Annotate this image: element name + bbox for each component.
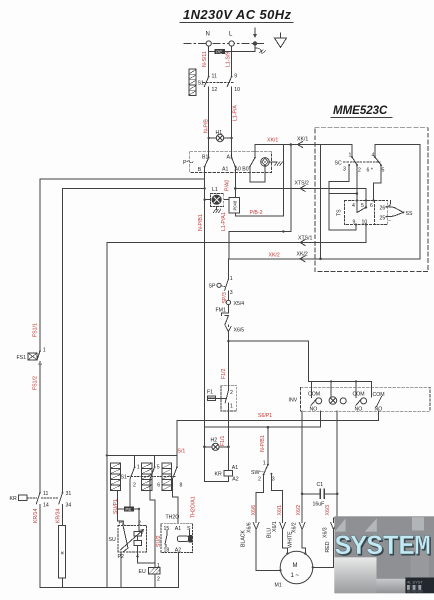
wire column to F1 bbox=[227, 341, 229, 386]
wire L1 right pin to connector bbox=[224, 199, 229, 201]
rail drops to INV bbox=[312, 380, 372, 397]
pressure unit SU dashed box bbox=[109, 521, 147, 561]
svg-text:2: 2 bbox=[230, 390, 233, 396]
wire TH2O A2 to bus bbox=[178, 553, 180, 588]
wire lower link y231 bbox=[229, 231, 291, 233]
wire SU 4 joins EU feed bbox=[138, 552, 156, 563]
wire black to motor bbox=[256, 533, 280, 570]
junction dot SU-2 feed bbox=[138, 508, 140, 510]
node L1 lamp bbox=[210, 187, 223, 206]
motor M1 bbox=[275, 551, 314, 588]
heater EU bbox=[139, 563, 161, 588]
INV contact group 4 bbox=[373, 392, 385, 412]
wire INV drop to S6/P1 bbox=[378, 411, 380, 420]
svg-text:15: 15 bbox=[164, 526, 170, 532]
wire INV drop to N line bbox=[319, 411, 321, 427]
terminal block 3 (hatched) bbox=[162, 463, 171, 491]
bottom bus wire bbox=[40, 587, 179, 589]
svg-text:KR/14: KR/14 bbox=[33, 508, 39, 523]
svg-text:BLU: BLU bbox=[267, 528, 273, 538]
svg-text:SC: SC bbox=[335, 161, 342, 167]
terminal block 1 (hatched) bbox=[110, 463, 120, 491]
svg-text:PE: PE bbox=[216, 50, 222, 55]
svg-text:5: 5 bbox=[361, 203, 364, 209]
wire blue to motor bbox=[283, 533, 288, 554]
svg-text:KR: KR bbox=[10, 496, 17, 502]
P label with flexible link bbox=[183, 160, 193, 166]
node L terminal circle bbox=[229, 41, 234, 46]
svg-text:34: 34 bbox=[66, 503, 72, 509]
wire N drop to switch bbox=[208, 46, 210, 76]
wire C1 right to red column bbox=[325, 493, 337, 495]
switch SC pole 1-2 bbox=[343, 152, 361, 173]
junction dot H1 left bbox=[208, 137, 210, 139]
programmer P dashed box bbox=[190, 152, 272, 173]
svg-text:X5/4: X5/4 bbox=[234, 301, 245, 307]
relay coil KR bbox=[204, 447, 238, 483]
S1 pole 7-8 bbox=[172, 455, 182, 523]
INV contact group 1 bbox=[308, 392, 322, 413]
wire far-left rail upper joins N (y179) bbox=[40, 178, 205, 180]
svg-text:N-S/11: N-S/11 bbox=[202, 51, 208, 67]
svg-text:11: 11 bbox=[212, 74, 217, 80]
svg-text:18: 18 bbox=[164, 548, 170, 554]
svg-text:XK/1: XK/1 bbox=[267, 138, 278, 144]
wire L drop to switch bbox=[231, 46, 233, 76]
terminal X5/4 circle bbox=[226, 300, 244, 307]
wire SC4 riser bbox=[374, 145, 376, 157]
SU internals bbox=[121, 525, 144, 552]
KR contact 31-34 bbox=[59, 491, 72, 526]
wire drop to XK/2 corner bbox=[228, 232, 230, 260]
svg-text:XK/2: XK/2 bbox=[297, 251, 308, 257]
wire below X5/4 bbox=[227, 305, 229, 313]
svg-text:P/A0: P/A0 bbox=[225, 180, 231, 191]
wire second rail column bbox=[62, 188, 64, 491]
svg-text:14: 14 bbox=[43, 503, 49, 509]
svg-text:F1/1: F1/1 bbox=[220, 436, 226, 446]
svg-text:F1/2: F1/2 bbox=[221, 369, 227, 379]
heater R bbox=[59, 526, 66, 588]
wire SC3 path to TS9 bbox=[329, 165, 356, 230]
svg-text:FS1: FS1 bbox=[17, 355, 27, 361]
svg-text:BLACK: BLACK bbox=[241, 529, 247, 547]
inverter INV dashed box bbox=[301, 387, 430, 411]
svg-text:P048: P048 bbox=[233, 200, 238, 210]
wire P/B-2 from connector box bbox=[235, 213, 283, 216]
junction dot TS common bbox=[365, 206, 367, 208]
svg-text:6 *: 6 * bbox=[367, 168, 373, 174]
TS pin dots top 4,5,6 bbox=[352, 199, 375, 209]
thermostat TH2O bbox=[161, 515, 192, 554]
sounder SS horn bbox=[386, 207, 413, 217]
curved PE hook symbol bbox=[255, 48, 262, 52]
junction dot H2 left bbox=[203, 446, 206, 449]
S1 pole 5-6 bbox=[150, 455, 160, 567]
svg-text:X6/6: X6/6 bbox=[246, 522, 252, 533]
wire dot to SU pin2 bbox=[138, 509, 140, 526]
svg-text:F1: F1 bbox=[207, 390, 213, 396]
svg-text:3: 3 bbox=[230, 290, 233, 296]
capacitor C1 bbox=[313, 482, 325, 508]
wire XTS/2 line bbox=[235, 187, 366, 189]
thermal cutout F1 bbox=[207, 386, 237, 411]
wire block1 to SU P1 bbox=[117, 509, 123, 526]
terminal arrow X6/1 bbox=[280, 523, 286, 534]
connector strip top (hatched) bbox=[189, 69, 196, 96]
terminal arrow XTS/2 bbox=[300, 186, 305, 192]
svg-text:COM: COM bbox=[373, 392, 385, 398]
junction dot H1 right bbox=[230, 137, 232, 139]
svg-text:25: 25 bbox=[380, 216, 386, 222]
chassis under L1 bbox=[213, 206, 220, 212]
svg-text:3: 3 bbox=[343, 167, 346, 173]
svg-text:XK/2: XK/2 bbox=[269, 253, 280, 259]
svg-text:12: 12 bbox=[212, 87, 218, 93]
svg-text:16uF: 16uF bbox=[313, 502, 325, 508]
svg-text:A0 B0: A0 B0 bbox=[235, 167, 249, 173]
wire H2 stub bbox=[204, 446, 228, 448]
svg-text:XTS/1: XTS/1 bbox=[298, 235, 313, 241]
svg-text:XTS/2: XTS/2 bbox=[295, 181, 310, 187]
connector box P/B (rotated text) bbox=[229, 197, 240, 213]
junction dot mid column bbox=[227, 340, 229, 342]
wire H1 stub bbox=[209, 137, 232, 139]
svg-text:tel 000 000: tel 000 000 bbox=[407, 590, 423, 594]
junction dot white/C1 bbox=[301, 493, 304, 496]
svg-text:R: R bbox=[60, 551, 65, 554]
svg-text:X6/2: X6/2 bbox=[296, 505, 302, 516]
wire INV white drop bbox=[301, 411, 303, 494]
junction dot L1 left bbox=[203, 199, 205, 201]
svg-text:COM: COM bbox=[308, 392, 320, 398]
svg-text:KR: KR bbox=[215, 472, 222, 478]
junction dot XK/2 internal bbox=[319, 258, 322, 261]
wire SW2 to black column bbox=[256, 475, 264, 523]
wire XK/1 line to MME bbox=[255, 144, 352, 146]
wire MME left bus bbox=[320, 145, 322, 259]
wire S/1 link bbox=[107, 421, 177, 456]
svg-text:SS: SS bbox=[406, 211, 413, 217]
svg-text:N-P/B1: N-P/B1 bbox=[198, 214, 204, 231]
svg-text:X6/3: X6/3 bbox=[325, 505, 331, 516]
svg-text:2: 2 bbox=[157, 577, 160, 583]
lamp H1 bbox=[216, 130, 224, 142]
junction dot SW feed bbox=[267, 426, 270, 429]
svg-text:WHITE: WHITE bbox=[288, 531, 294, 548]
wire C1 left to white column bbox=[302, 493, 320, 495]
svg-text:S6/P1: S6/P1 bbox=[258, 413, 272, 419]
P contact A1-A0 bbox=[222, 155, 249, 173]
float switch FS1 bbox=[17, 348, 46, 492]
svg-text:X6/6: X6/6 bbox=[251, 505, 257, 516]
svg-text:A1: A1 bbox=[232, 465, 238, 471]
svg-text:1 ~: 1 ~ bbox=[291, 573, 300, 579]
svg-text:1N230V AC 50Hz: 1N230V AC 50Hz bbox=[183, 7, 292, 22]
svg-text:TH2O/A1: TH2O/A1 bbox=[190, 496, 196, 518]
wire white column to arrow bbox=[301, 494, 303, 523]
svg-text:RED: RED bbox=[325, 541, 331, 552]
wire XK/1 riser from P box bbox=[254, 145, 256, 158]
wire B0 U-loop to diamond bbox=[250, 167, 265, 183]
chassis ground symbol bbox=[274, 162, 282, 166]
svg-text:1: 1 bbox=[230, 404, 233, 410]
terminal arrow X6/6 bbox=[253, 523, 259, 534]
wire SU P2 to bus bbox=[120, 552, 122, 588]
svg-text:N-P/B: N-P/B bbox=[204, 119, 210, 133]
wire red column jog bbox=[334, 494, 338, 523]
lamp H2 bbox=[211, 437, 220, 450]
switch S1 pole L pins 9/10 bbox=[227, 74, 240, 139]
wire B pin down (N-P/B1 net) bbox=[204, 167, 206, 200]
MME dashed enclosure bbox=[315, 128, 428, 272]
wire F1 down to H2 node bbox=[227, 411, 229, 447]
buzzer/valve symbol in P box bbox=[261, 158, 270, 167]
PE label box bbox=[215, 49, 226, 54]
TS internal blade bbox=[357, 200, 366, 212]
wire INV feed line bbox=[228, 341, 308, 381]
wire diamond to chassis bbox=[269, 161, 274, 163]
svg-text:2: 2 bbox=[358, 168, 361, 174]
supply bus line (dash-dot) bbox=[184, 43, 264, 45]
svg-text:10: 10 bbox=[234, 87, 240, 93]
svg-text:11: 11 bbox=[43, 491, 48, 497]
svg-text:S/1: S/1 bbox=[178, 449, 186, 455]
svg-text:X6/3: X6/3 bbox=[323, 527, 329, 538]
svg-text:SP: SP bbox=[209, 284, 216, 290]
switch SC pole 4-5 bbox=[367, 152, 385, 173]
wire white to motor bbox=[302, 533, 305, 554]
wire L to P box bbox=[231, 138, 233, 157]
wire SC5 jog to TS6 bbox=[374, 165, 382, 200]
TH2O internals bbox=[165, 531, 192, 548]
svg-text:6: 6 bbox=[157, 483, 160, 489]
TS internal divider bbox=[374, 200, 376, 224]
wire PE link to SU bbox=[117, 491, 138, 509]
KR contact 11-14 bbox=[36, 491, 49, 588]
svg-text:P: P bbox=[183, 160, 187, 166]
P contact XK/B0 bbox=[249, 157, 256, 168]
junction dot 283/231 bbox=[282, 230, 284, 232]
watermark SYSTEM logo bbox=[334, 516, 434, 593]
wire A0 pin down bbox=[234, 167, 236, 197]
wire MME right bus bbox=[375, 145, 420, 259]
terminal arrow XK/1 bbox=[298, 142, 303, 148]
svg-text:MME523C: MME523C bbox=[333, 105, 388, 117]
svg-text:1: 1 bbox=[137, 465, 140, 471]
INV lamp + terminal bbox=[329, 397, 346, 405]
svg-text:P1: P1 bbox=[119, 521, 125, 527]
wire TS10 to XTS/1 bbox=[365, 225, 367, 243]
svg-text:5: 5 bbox=[157, 465, 160, 471]
svg-text:9: 9 bbox=[234, 74, 237, 80]
switch S1 pole N pins 11/12 bbox=[204, 74, 217, 139]
title 1N230V AC 50Hz bbox=[180, 7, 293, 23]
terminal arrow XK/2 bbox=[300, 256, 305, 262]
wire L1 left pin bbox=[205, 199, 211, 201]
svg-text:NO: NO bbox=[310, 406, 318, 412]
svg-text:X6/1: X6/1 bbox=[277, 505, 283, 516]
svg-text:L1-S/9: L1-S/9 bbox=[226, 52, 232, 67]
svg-text:9: 9 bbox=[353, 219, 356, 225]
node N terminal circle bbox=[206, 41, 211, 46]
svg-text:X6/5: X6/5 bbox=[234, 328, 245, 334]
switch S1 cluster dashed link bbox=[128, 476, 176, 478]
wire XK/2 line bbox=[229, 258, 420, 260]
svg-text:EU: EU bbox=[139, 569, 146, 575]
svg-text:L1: L1 bbox=[212, 187, 218, 193]
svg-text:A2: A2 bbox=[232, 477, 238, 483]
PE terminal box (cluster) bbox=[124, 506, 134, 512]
timer TS dashed box bbox=[345, 200, 388, 224]
svg-text:PE: PE bbox=[125, 507, 131, 512]
wire branch to SC2 column bbox=[329, 193, 357, 195]
wire red to motor bbox=[313, 533, 334, 567]
svg-text:INV: INV bbox=[289, 398, 298, 404]
terminal arrow XTS/1 bbox=[300, 240, 305, 246]
wire S6/P1 line bbox=[177, 420, 379, 422]
svg-text:A1: A1 bbox=[175, 526, 181, 532]
svg-text:M1: M1 bbox=[275, 583, 282, 589]
svg-text:31: 31 bbox=[66, 491, 72, 497]
wire third rail column bbox=[106, 243, 108, 588]
P contact B1-B bbox=[198, 155, 210, 173]
junction dot N/188 bbox=[203, 187, 205, 189]
svg-text:−: − bbox=[388, 219, 391, 225]
wire SC2 down to TS4 bbox=[356, 165, 358, 200]
svg-text:2: 2 bbox=[133, 483, 136, 489]
svg-text:S1: S1 bbox=[121, 475, 127, 481]
svg-text:1: 1 bbox=[349, 152, 352, 158]
svg-text:B: B bbox=[198, 167, 202, 173]
svg-text:P/B-2: P/B-2 bbox=[250, 210, 263, 216]
svg-text:H2: H2 bbox=[211, 437, 218, 443]
svg-text:1: 1 bbox=[157, 563, 160, 569]
svg-text:26: 26 bbox=[380, 206, 386, 212]
svg-text:4: 4 bbox=[352, 203, 355, 209]
wire SP column top bbox=[227, 259, 229, 280]
svg-text:L1-P/A1: L1-P/A1 bbox=[221, 212, 227, 231]
terminal arrow X6/2 bbox=[299, 523, 305, 534]
sounder SS pins 26/25 bbox=[380, 200, 392, 224]
svg-text:N-P/B1: N-P/B1 bbox=[260, 435, 266, 452]
distribution rail above INV bbox=[308, 380, 371, 382]
svg-text:N: N bbox=[206, 32, 210, 38]
svg-text:KR/34: KR/34 bbox=[56, 508, 62, 523]
wire INV red drop bbox=[336, 411, 338, 494]
svg-text:8: 8 bbox=[180, 483, 183, 489]
svg-text:2: 2 bbox=[258, 476, 261, 482]
relay KR contact block bbox=[10, 495, 59, 502]
svg-text:4: 4 bbox=[372, 152, 375, 158]
wire SW riser bbox=[267, 427, 269, 464]
earth symbol top right bbox=[275, 33, 287, 48]
switch SC dashed link bbox=[344, 161, 381, 163]
SC pin3 stub dot bbox=[348, 164, 350, 166]
svg-text:FS1/2: FS1/2 bbox=[32, 376, 38, 390]
svg-text:X6/1: X6/1 bbox=[272, 521, 278, 532]
junction dot red/C1 bbox=[336, 493, 339, 496]
svg-text:TH2O: TH2O bbox=[166, 515, 180, 521]
PE down arrow above junction bbox=[253, 28, 257, 38]
svg-text:1: 1 bbox=[43, 348, 46, 354]
wire XTS2-left rail (y188) bbox=[63, 187, 205, 189]
wire N return line y427 bbox=[204, 426, 320, 428]
svg-text:5: 5 bbox=[382, 168, 385, 174]
wire left rail FS1 column bbox=[39, 179, 41, 351]
terminal block 2 (hatched) bbox=[142, 463, 152, 491]
svg-text:A1: A1 bbox=[222, 167, 228, 173]
svg-text:SU: SU bbox=[109, 537, 116, 543]
svg-text:NO: NO bbox=[355, 407, 363, 413]
pressure switch SP bbox=[209, 276, 233, 300]
svg-text:SYSTEM: SYSTEM bbox=[335, 532, 431, 563]
svg-text:3: 3 bbox=[272, 476, 275, 482]
svg-text:COM: COM bbox=[353, 392, 365, 398]
svg-text:M: M bbox=[293, 563, 298, 569]
switch S1 dashed link bbox=[203, 81, 234, 83]
wire SC1 riser bbox=[351, 145, 353, 157]
float switch FM1 bbox=[216, 308, 229, 327]
svg-text:1: 1 bbox=[230, 276, 233, 282]
wire XTS/1 line bbox=[107, 242, 366, 244]
junction dot on SC2 wire bbox=[356, 192, 359, 195]
svg-text:FS1/1: FS1/1 bbox=[32, 323, 38, 337]
terminal X6/5 chevron bbox=[226, 326, 245, 341]
svg-text:L1-P/A: L1-P/A bbox=[233, 105, 239, 121]
switch SW bbox=[251, 460, 275, 482]
terminal arrow X6/3 bbox=[331, 523, 337, 534]
svg-text:SW: SW bbox=[251, 470, 259, 476]
svg-text:1: 1 bbox=[263, 460, 266, 466]
wire N to P box bbox=[208, 138, 210, 157]
svg-text:10: 10 bbox=[362, 219, 368, 225]
svg-text:C1: C1 bbox=[317, 482, 324, 488]
wire parallel drop to P/B-2 bbox=[282, 145, 284, 216]
wire drop from XK/1 dot bbox=[290, 145, 292, 232]
wire XTS/2 into TS pin5 bbox=[365, 188, 367, 207]
S1 pole 1-2 bbox=[130, 455, 140, 506]
TS pin dots bottom 9,10 bbox=[353, 219, 368, 225]
svg-text:6: 6 bbox=[370, 203, 373, 209]
PE wire from supply dot to N column bbox=[209, 44, 255, 52]
svg-text:TS: TS bbox=[337, 209, 343, 216]
junction dot XTS/2 start bbox=[234, 187, 237, 190]
INV contact group 3 bbox=[353, 392, 367, 413]
PE junction dot bbox=[253, 41, 257, 45]
wire N vertical segment bbox=[203, 200, 205, 482]
wire SW3 to blue column bbox=[271, 474, 282, 523]
junction dot XK/1 bbox=[290, 143, 293, 146]
svg-text:S1: S1 bbox=[198, 81, 204, 87]
junction dot H2 right bbox=[227, 446, 230, 449]
junction cluster top left bbox=[106, 454, 108, 456]
MME523C title bbox=[331, 105, 392, 118]
